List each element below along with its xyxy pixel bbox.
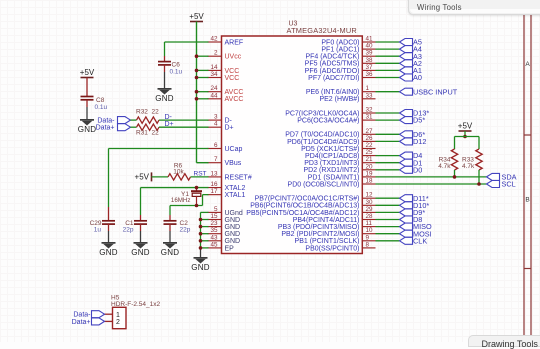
svg-text:7: 7 — [214, 156, 218, 163]
svg-text:5: 5 — [214, 206, 218, 213]
svg-text:D+: D+ — [225, 125, 234, 132]
svg-text:PD6(T1/OC4D#/ADC9): PD6(T1/OC4D#/ADC9) — [287, 139, 359, 146]
svg-text:18: 18 — [366, 178, 374, 185]
svg-text:0.1u: 0.1u — [170, 68, 183, 75]
svg-text:Data+: Data+ — [72, 319, 91, 326]
svg-text:EP: EP — [225, 245, 235, 252]
svg-text:21: 21 — [366, 156, 374, 163]
svg-text:1: 1 — [366, 85, 370, 92]
svg-text:UCap: UCap — [225, 146, 243, 153]
svg-text:A0: A0 — [413, 73, 422, 82]
svg-text:PF7 (ADC7/TDI): PF7 (ADC7/TDI) — [308, 75, 359, 82]
svg-text:24: 24 — [210, 85, 218, 92]
svg-text:AVCC: AVCC — [225, 89, 244, 96]
svg-text:16: 16 — [210, 181, 218, 188]
svg-text:HDR-F-2.54_1x2: HDR-F-2.54_1x2 — [111, 301, 161, 308]
svg-text:R32: R32 — [136, 109, 148, 116]
svg-text:GND: GND — [191, 263, 209, 272]
svg-text:22: 22 — [152, 130, 160, 137]
svg-text:PD0 (OC0B/SCL/INT0): PD0 (OC0B/SCL/INT0) — [288, 181, 360, 188]
svg-text:D-: D- — [165, 114, 173, 121]
svg-text:PE6 (INT.6/AIN0): PE6 (INT.6/AIN0) — [306, 89, 360, 96]
svg-text:ATMEGA32U4-MUR: ATMEGA32U4-MUR — [287, 26, 357, 35]
svg-text:8: 8 — [366, 241, 370, 248]
svg-text:20: 20 — [366, 163, 374, 170]
svg-text:PB6(PCINT6/OC1B/OC4B/ADC13): PB6(PCINT6/OC1B/OC4B/ADC13) — [250, 203, 359, 210]
svg-text:GND: GND — [225, 217, 241, 224]
svg-text:35: 35 — [210, 227, 218, 234]
svg-text:27: 27 — [366, 128, 374, 135]
svg-text:1u: 1u — [94, 227, 102, 234]
svg-text:D0: D0 — [413, 165, 422, 174]
svg-text:39: 39 — [366, 50, 374, 57]
svg-text:PB2 (PDI/PCINT2/MOSI): PB2 (PDI/PCINT2/MOSI) — [281, 231, 359, 238]
svg-text:GND: GND — [225, 231, 241, 238]
svg-text:44: 44 — [210, 92, 218, 99]
svg-text:CLK: CLK — [413, 236, 427, 245]
svg-text:3: 3 — [214, 114, 218, 121]
svg-text:USBC INPUT: USBC INPUT — [413, 87, 458, 96]
svg-text:PD1 (SDA/INT1): PD1 (SDA/INT1) — [308, 174, 360, 181]
svg-text:PD2 (RXD1/INT2): PD2 (RXD1/INT2) — [303, 167, 359, 174]
svg-text:0.1u: 0.1u — [95, 104, 108, 111]
svg-text:VBus: VBus — [225, 160, 242, 167]
svg-text:10k: 10k — [173, 169, 184, 176]
svg-text:PD4(ICP1/ADC8): PD4(ICP1/ADC8) — [305, 153, 359, 160]
svg-text:37: 37 — [366, 64, 374, 71]
svg-text:34: 34 — [210, 71, 218, 78]
svg-text:32: 32 — [366, 107, 374, 114]
svg-text:XTAL2: XTAL2 — [225, 185, 246, 192]
svg-text:B: B — [525, 197, 529, 204]
svg-text:14: 14 — [210, 64, 218, 71]
svg-text:31: 31 — [366, 114, 374, 121]
svg-text:19: 19 — [366, 170, 374, 177]
svg-text:30: 30 — [366, 199, 374, 206]
svg-text:VCC: VCC — [225, 75, 240, 82]
svg-text:40: 40 — [366, 43, 374, 50]
svg-text:D5*: D5* — [413, 116, 425, 125]
svg-text:Data+: Data+ — [96, 125, 115, 132]
svg-text:PF5 (ADC5/TMS): PF5 (ADC5/TMS) — [305, 61, 360, 68]
svg-text:36: 36 — [366, 71, 374, 78]
svg-text:33: 33 — [366, 92, 374, 99]
svg-text:2: 2 — [116, 319, 120, 326]
svg-text:SCL: SCL — [502, 180, 516, 189]
svg-text:9: 9 — [366, 234, 370, 241]
svg-text:22: 22 — [152, 109, 160, 116]
svg-text:22p: 22p — [180, 227, 191, 234]
svg-text:PD5 (XCK1/CTS#): PD5 (XCK1/CTS#) — [301, 146, 359, 153]
svg-text:41: 41 — [366, 36, 374, 43]
svg-text:28: 28 — [366, 213, 374, 220]
svg-text:11: 11 — [366, 220, 373, 227]
svg-text:Data-: Data- — [73, 312, 91, 319]
svg-text:29: 29 — [366, 206, 374, 213]
svg-text:PD7 (T0/OC4D/ADC10): PD7 (T0/OC4D/ADC10) — [285, 132, 359, 139]
svg-text:22p: 22p — [123, 227, 134, 234]
svg-text:PF6 (ADC6/TDO): PF6 (ADC6/TDO) — [305, 68, 360, 75]
svg-text:AVCC: AVCC — [225, 96, 244, 103]
svg-text:25: 25 — [366, 149, 374, 156]
svg-text:D12: D12 — [413, 137, 426, 146]
svg-text:+5V: +5V — [458, 122, 473, 131]
svg-text:6: 6 — [214, 142, 218, 149]
svg-text:PB1 (PCINT1/SCLK): PB1 (PCINT1/SCLK) — [295, 238, 360, 245]
svg-text:2: 2 — [214, 50, 218, 57]
svg-text:12: 12 — [366, 192, 374, 199]
svg-text:AREF: AREF — [225, 39, 244, 46]
svg-text:23: 23 — [210, 220, 218, 227]
svg-text:PB7(PCINT7/OC0A/OC1C/RTS#): PB7(PCINT7/OC0A/OC1C/RTS#) — [255, 196, 360, 203]
svg-text:PC7(ICP3/CLK0/OC4A): PC7(ICP3/CLK0/OC4A) — [285, 110, 359, 117]
svg-text:+5V: +5V — [135, 173, 150, 182]
svg-text:PC6(OC3A/OC4A#): PC6(OC3A/OC4A#) — [297, 118, 359, 125]
svg-text:17: 17 — [210, 188, 218, 195]
svg-text:GND: GND — [161, 248, 179, 257]
svg-text:PB3 (PDO/PCINT3/MISO): PB3 (PDO/PCINT3/MISO) — [278, 224, 360, 231]
svg-text:PB4(PCINT4/ADC11): PB4(PCINT4/ADC11) — [293, 217, 360, 224]
svg-text:4.7k: 4.7k — [462, 163, 475, 170]
svg-text:A: A — [525, 61, 530, 68]
svg-text:+5V: +5V — [80, 68, 95, 77]
svg-text:16MHz: 16MHz — [171, 197, 191, 204]
svg-text:GND: GND — [155, 94, 173, 103]
svg-text:D+: D+ — [165, 121, 174, 128]
svg-text:XTAL1: XTAL1 — [225, 192, 246, 199]
svg-text:PB0(SS/PCINT0): PB0(SS/PCINT0) — [305, 245, 359, 252]
svg-text:4: 4 — [214, 121, 218, 128]
svg-text:PB5(PCINT5/OC1A/OC4B#/ADC12): PB5(PCINT5/OC1A/OC4B#/ADC12) — [246, 210, 359, 217]
svg-text:R31: R31 — [136, 130, 148, 137]
svg-text:PF4 (ADC4/TCK): PF4 (ADC4/TCK) — [305, 54, 359, 61]
svg-text:4.7k: 4.7k — [438, 163, 451, 170]
svg-text:Data-: Data- — [97, 118, 115, 125]
svg-text:VCC: VCC — [225, 68, 240, 75]
svg-text:GND: GND — [225, 224, 241, 231]
svg-text:1: 1 — [116, 312, 120, 319]
svg-text:RST: RST — [194, 170, 207, 177]
svg-text:+5V: +5V — [189, 12, 204, 21]
svg-text:13: 13 — [210, 170, 218, 177]
svg-text:PF0 (ADC0): PF0 (ADC0) — [321, 39, 359, 46]
svg-text:PD3 (TXD1/INT3): PD3 (TXD1/INT3) — [304, 160, 359, 167]
svg-text:GND: GND — [99, 248, 117, 257]
svg-text:42: 42 — [210, 36, 218, 43]
svg-text:10: 10 — [366, 227, 374, 234]
svg-text:26: 26 — [366, 135, 374, 142]
svg-text:UVcc: UVcc — [225, 54, 242, 61]
svg-text:GND: GND — [225, 238, 241, 245]
svg-text:PE2 (HWB#): PE2 (HWB#) — [319, 96, 359, 103]
svg-text:22: 22 — [366, 142, 374, 149]
svg-text:UGnd: UGnd — [225, 210, 243, 217]
svg-text:D-: D- — [225, 118, 233, 125]
svg-text:45: 45 — [210, 241, 218, 248]
svg-text:15: 15 — [210, 213, 218, 220]
svg-text:GND: GND — [78, 125, 96, 134]
svg-text:PF1 (ADC1): PF1 (ADC1) — [321, 47, 359, 54]
svg-text:38: 38 — [366, 57, 374, 64]
svg-text:43: 43 — [210, 234, 218, 241]
svg-text:RESET#: RESET# — [225, 174, 252, 181]
svg-text:GND: GND — [131, 248, 149, 257]
